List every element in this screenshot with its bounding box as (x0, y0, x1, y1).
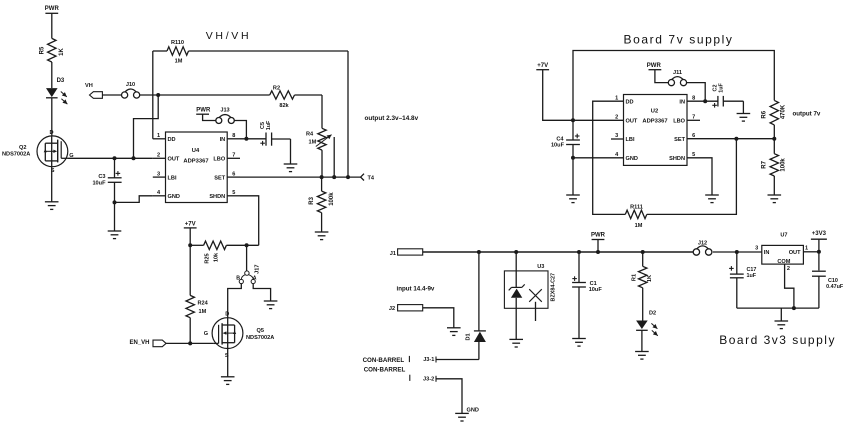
ground (737, 114, 751, 122)
wire OUT net (803, 250, 821, 254)
svg-text:100k: 100k (781, 158, 787, 172)
svg-text:LBI: LBI (168, 175, 177, 181)
svg-text:U3: U3 (537, 264, 544, 270)
title Board 7v supply (623, 32, 733, 46)
svg-text:input 14.4-9v: input 14.4-9v (397, 285, 435, 292)
wire GND net (573, 157, 624, 159)
svg-text:Board 3v3 supply: Board 3v3 supply (719, 333, 836, 347)
svg-text:OUT: OUT (168, 157, 180, 163)
zener U3 BZX84-C27 (504, 252, 556, 339)
ground (108, 231, 122, 239)
capacitor C2 (712, 83, 743, 114)
svg-text:R25: R25 (205, 253, 211, 263)
svg-text:GND: GND (626, 156, 638, 162)
wire (102, 94, 121, 96)
wire (227, 349, 229, 377)
capacitor C10 (812, 252, 844, 308)
wire (189, 245, 191, 295)
LED D3 (46, 78, 67, 104)
wire OUT net (68, 157, 153, 159)
svg-text:CON-BARREL: CON-BARREL (364, 367, 406, 374)
wire SET net (240, 175, 361, 179)
ground (635, 352, 649, 360)
svg-text:OUT: OUT (626, 119, 638, 125)
svg-text:2: 2 (787, 266, 790, 272)
svg-text:B: B (236, 276, 240, 282)
svg-text:GND: GND (467, 408, 479, 414)
svg-text:IN: IN (220, 137, 226, 143)
svg-text:R111: R111 (630, 205, 643, 211)
ground (566, 195, 580, 203)
power +3V3 (811, 231, 827, 252)
potentiometer R4 (306, 95, 334, 177)
svg-text:EN_VH: EN_VH (130, 340, 150, 346)
capacitor C17 (729, 252, 757, 308)
resistor R2 (270, 86, 322, 109)
svg-text:J3-2: J3-2 (423, 377, 434, 383)
ground GND (455, 408, 479, 421)
svg-text:C10: C10 (828, 278, 838, 284)
svg-text:J17: J17 (255, 265, 261, 274)
svg-text:2: 2 (615, 115, 618, 121)
svg-text:J10: J10 (126, 82, 135, 88)
svg-text:D2: D2 (649, 311, 656, 317)
svg-text:10uF: 10uF (589, 287, 603, 293)
svg-text:8: 8 (692, 95, 695, 101)
svg-text:U4: U4 (192, 148, 200, 154)
svg-text:OUT: OUT (789, 250, 801, 256)
svg-text:J3-1: J3-1 (423, 357, 434, 363)
svg-text:1K: 1K (647, 275, 653, 282)
svg-text:SET: SET (674, 137, 685, 143)
svg-text:J13: J13 (220, 108, 229, 114)
svg-text:0.47uF: 0.47uF (826, 284, 844, 290)
svg-text:output 2.3v–14.8v: output 2.3v–14.8v (365, 115, 419, 122)
wire (51, 62, 53, 88)
wire (780, 308, 782, 321)
svg-text:R4: R4 (306, 132, 314, 138)
svg-text:1K: 1K (59, 47, 65, 55)
svg-text:1uF: 1uF (719, 83, 725, 93)
svg-text:A: A (253, 275, 257, 281)
svg-text:SET: SET (214, 175, 225, 181)
IC U4 ADP3367 (153, 132, 240, 203)
wire to OUT (132, 95, 159, 160)
svg-text:R110: R110 (171, 40, 184, 46)
svg-text:VH: VH (85, 83, 93, 89)
svg-text:J1: J1 (390, 251, 396, 257)
svg-text:1uF: 1uF (266, 120, 272, 130)
wire (687, 83, 708, 104)
svg-text:10uF: 10uF (551, 143, 565, 149)
power PWR (196, 107, 216, 120)
transistor Q5 NDS7002A (204, 312, 274, 359)
svg-text:BZX84-C27: BZX84-C27 (550, 273, 556, 301)
svg-text:LBI: LBI (626, 137, 635, 143)
svg-text:DD: DD (626, 99, 634, 105)
ground (572, 339, 586, 347)
svg-text:PWR: PWR (591, 233, 606, 239)
power PWR (45, 6, 60, 38)
svg-text:5: 5 (232, 190, 235, 196)
title Board 3v3 supply (719, 333, 836, 347)
svg-text:3: 3 (755, 245, 758, 251)
svg-text:R7: R7 (762, 160, 768, 168)
svg-text:D3: D3 (57, 78, 65, 84)
ground (775, 321, 789, 329)
svg-text:PWR: PWR (196, 107, 211, 113)
svg-text:1M: 1M (635, 223, 643, 229)
svg-text:1M: 1M (309, 140, 317, 146)
wire top rail (571, 51, 774, 123)
svg-text:SHDN: SHDN (669, 156, 685, 162)
wire (234, 121, 248, 141)
junction (156, 93, 160, 97)
resistor R6 (762, 100, 787, 138)
svg-text:VH/VH: VH/VH (206, 30, 252, 42)
wire SET net (687, 137, 776, 141)
LED D2 (636, 311, 658, 352)
diode D1 (465, 252, 486, 360)
svg-text:NDS7002A: NDS7002A (2, 152, 30, 158)
resistor R5 (40, 38, 65, 62)
resistor R25 (190, 241, 259, 264)
svg-text:T4: T4 (368, 175, 375, 181)
svg-text:8: 8 (232, 133, 235, 139)
wire (713, 250, 762, 254)
wire (188, 318, 192, 346)
ground (509, 339, 523, 347)
svg-text:100k: 100k (329, 192, 335, 206)
svg-text:C3: C3 (98, 174, 105, 180)
title VH/VH (206, 30, 252, 42)
wire IN net (240, 138, 266, 140)
svg-text:D: D (225, 312, 229, 318)
input tag EN_VH (130, 340, 167, 347)
svg-text:PWR: PWR (45, 6, 60, 12)
resistor R111 (593, 101, 737, 229)
wire (114, 202, 116, 231)
wire GND net (115, 196, 153, 203)
wire SHDN net (687, 158, 712, 195)
svg-text:R2: R2 (273, 86, 280, 92)
svg-text:Q5: Q5 (257, 328, 264, 334)
svg-text:1: 1 (157, 133, 160, 139)
svg-text:output 7v: output 7v (793, 110, 821, 117)
svg-text:1M: 1M (199, 309, 207, 315)
power PWR (591, 233, 606, 252)
resistor R24 (186, 295, 209, 317)
connector J1 (390, 249, 423, 257)
svg-text:10k: 10k (214, 252, 220, 262)
svg-text:DD: DD (168, 137, 176, 143)
wire main rail (423, 250, 693, 254)
svg-text:R3: R3 (309, 196, 315, 204)
jumper J12 (693, 240, 712, 255)
svg-text:7: 7 (692, 115, 695, 121)
svg-text:J12: J12 (698, 240, 707, 246)
svg-text:CON-BARREL: CON-BARREL (363, 357, 405, 364)
input tag VH (85, 83, 102, 99)
capacitor C4 (551, 120, 580, 160)
svg-text:PWR: PWR (647, 63, 662, 69)
wire (253, 284, 270, 301)
resistor R7 (762, 139, 787, 195)
svg-text:470K: 470K (781, 104, 787, 119)
wire SHDN net (240, 196, 259, 246)
wire (51, 98, 53, 136)
svg-text:J11: J11 (673, 70, 682, 76)
svg-text:U2: U2 (651, 109, 658, 115)
svg-text:1uF: 1uF (747, 273, 757, 279)
text output 7v (793, 110, 821, 117)
svg-text:1M: 1M (175, 59, 183, 65)
svg-text:Q2: Q2 (19, 145, 26, 151)
wire (228, 284, 242, 318)
resistor R1 (631, 252, 653, 321)
wire (572, 158, 574, 195)
ground (705, 195, 719, 203)
svg-text:R6: R6 (762, 110, 768, 118)
svg-text:ADP3367: ADP3367 (183, 158, 208, 164)
jumper J13 (216, 108, 235, 124)
IC U2 ADP3367 (611, 95, 700, 166)
svg-text:LBO: LBO (673, 119, 685, 125)
text input range (397, 285, 435, 292)
ground (264, 301, 278, 309)
svg-text:Board 7v supply: Board 7v supply (623, 32, 733, 46)
svg-text:+7V: +7V (537, 63, 548, 69)
svg-text:GND: GND (168, 194, 180, 200)
terminal T4 (361, 174, 375, 182)
ground (221, 377, 235, 385)
wire (51, 167, 53, 202)
connector J3-2 CON-BARREL (364, 367, 462, 414)
svg-text:3: 3 (157, 171, 160, 177)
svg-text:C2: C2 (713, 85, 719, 92)
svg-text:NDS7002A: NDS7002A (246, 335, 274, 341)
svg-text:IN: IN (764, 250, 770, 256)
svg-text:C4: C4 (556, 136, 564, 142)
ground (447, 328, 461, 336)
svg-text:G: G (204, 331, 208, 337)
ground (284, 164, 298, 172)
svg-text:+7V: +7V (185, 222, 196, 228)
text output (365, 115, 419, 122)
svg-text:6: 6 (232, 171, 235, 177)
power +7V (536, 63, 573, 120)
wire bottom rail (737, 307, 819, 309)
jumper J10 (122, 82, 140, 98)
svg-text:R24: R24 (198, 301, 209, 307)
jumper J11 (668, 70, 686, 86)
svg-text:U7: U7 (780, 232, 787, 238)
svg-text:82k: 82k (279, 103, 289, 109)
ground (45, 202, 59, 210)
svg-text:C1: C1 (590, 281, 597, 287)
svg-text:1: 1 (615, 95, 618, 101)
resistor R3 (309, 177, 335, 232)
jumper J17 (236, 243, 260, 283)
svg-text:C5: C5 (260, 122, 266, 129)
connector J3-1 CON-BARREL (363, 356, 479, 364)
wire OUT net (573, 119, 624, 121)
svg-text:5: 5 (692, 152, 695, 158)
ground (768, 195, 782, 203)
svg-text:SHDN: SHDN (209, 194, 225, 200)
regulator U7 (755, 232, 808, 310)
svg-text:J2: J2 (389, 306, 395, 312)
svg-text:R5: R5 (40, 46, 46, 54)
svg-text:D: D (49, 130, 53, 136)
svg-text:+3V3: +3V3 (812, 231, 827, 237)
svg-text:7: 7 (232, 153, 235, 159)
svg-text:ADP3367: ADP3367 (642, 119, 667, 125)
transistor Q2 NDS7002A (2, 130, 74, 174)
power +7V (184, 222, 197, 248)
svg-text:2: 2 (157, 153, 160, 159)
svg-text:D1: D1 (465, 333, 471, 340)
svg-text:10uF: 10uF (92, 180, 106, 186)
capacitor C3 (92, 156, 121, 204)
svg-text:1: 1 (805, 245, 808, 251)
wire (166, 342, 214, 344)
svg-text:IN: IN (679, 99, 685, 105)
ground (315, 232, 329, 240)
power PWR (647, 63, 668, 83)
wire VH net (140, 94, 270, 96)
wire IN net (687, 100, 718, 102)
capacitor C5 (260, 120, 291, 164)
svg-text:3: 3 (615, 133, 618, 139)
svg-text:LBO: LBO (213, 157, 225, 163)
connector J2 (389, 305, 454, 328)
resistor R110 (153, 40, 348, 177)
capacitor C1 (572, 252, 602, 339)
svg-text:R1: R1 (631, 274, 637, 281)
